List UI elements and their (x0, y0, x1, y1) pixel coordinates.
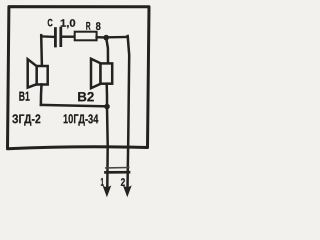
svg-text:R: R (86, 21, 91, 33)
paper background (0, 0, 157, 200)
junction node top (R8 / B2) (103, 35, 109, 41)
bottom wire B1 to node (41, 105, 107, 107)
capacitor C1 plate left (54, 29, 57, 46)
wire B1 bottom drop (40, 84, 43, 105)
wire top-left corner to capacitor (41, 35, 54, 38)
wire node down to B2 (106, 39, 108, 64)
capacitor C1 plate right (59, 28, 62, 45)
cable tie bar upper (106, 167, 129, 169)
svg-text:ЗГД-2: ЗГД-2 (12, 112, 41, 126)
frame border (8, 7, 150, 149)
wire B2 bottom drop (105, 84, 108, 105)
wire resistor to node (97, 36, 104, 39)
cable tie bar lower (106, 171, 130, 174)
svg-text:C: C (47, 17, 53, 29)
arrowhead output 2 (123, 185, 132, 197)
wire left drop to B1 (40, 35, 43, 66)
svg-text:В1: В1 (19, 89, 30, 104)
svg-text:1: 1 (101, 177, 104, 189)
wire capacitor to resistor (62, 36, 75, 38)
speaker B2 cone (91, 59, 101, 88)
svg-text:8: 8 (96, 21, 101, 33)
wire bottom node down to arrow 1 (106, 107, 109, 189)
speaker B1 cone (28, 59, 37, 87)
wire node to right corner (109, 36, 128, 39)
speaker B2 box (101, 63, 113, 83)
svg-text:10ГД-34: 10ГД-34 (63, 111, 99, 126)
speaker B1 box (37, 66, 48, 85)
svg-text:В2: В2 (77, 89, 94, 104)
arrowhead output 1 (103, 185, 112, 197)
svg-text:1,0: 1,0 (60, 18, 76, 30)
wire right vertical: R node down to arrow 2 (128, 36, 130, 188)
svg-text:2: 2 (121, 177, 126, 189)
resistor R body (75, 32, 97, 41)
junction node bottom (B1/B2 common) (104, 104, 110, 110)
